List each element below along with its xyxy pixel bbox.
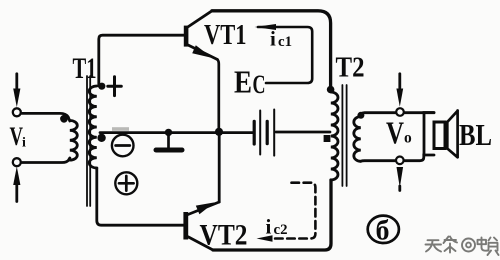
svg-text:E: E [234, 64, 252, 100]
svg-text:T2: T2 [336, 53, 365, 84]
input top arrow [13, 74, 20, 107]
watermark toutiao dianchao [426, 237, 499, 256]
ground [156, 132, 182, 150]
label T1 [73, 52, 97, 85]
transformer T1 core [87, 76, 90, 206]
svg-text:o: o [404, 130, 412, 147]
transformer T1 primary winding [70, 121, 78, 161]
figure label circled b [368, 216, 399, 247]
watermark remnant tick [112, 127, 129, 131]
wire T1 secondary top to VT1 base [99, 35, 184, 86]
svg-text:i: i [266, 215, 272, 239]
input bottom arrow [13, 167, 20, 202]
svg-text:i: i [270, 27, 276, 51]
svg-text:VT1: VT1 [204, 20, 247, 51]
wire T1 secondary bottom to VT2 base [97, 168, 184, 225]
output top terminal [396, 108, 404, 116]
wire junction down to VT2 emitter [218, 132, 221, 202]
circled plus symbol [115, 172, 137, 194]
svg-text:T1: T1 [73, 52, 97, 85]
label ic1 [270, 27, 292, 51]
wire VT1 collector top run to T2 primary top [212, 11, 331, 88]
svg-text:BL: BL [459, 117, 492, 152]
label Vi [10, 122, 27, 151]
wire VT2 collector to T2 primary bottom [213, 180, 331, 250]
label VT2 [200, 219, 248, 252]
node: T1 primary top dot [60, 115, 68, 123]
transistor VT1 [184, 11, 218, 60]
ic1 current loop [255, 24, 313, 83]
transformer T1 secondary winding [89, 86, 97, 168]
wire T2 secondary top to output [361, 113, 434, 117]
svg-text:б: б [376, 216, 390, 247]
wire VT1 emitter down to junction [217, 60, 218, 132]
label EC [234, 64, 266, 100]
svg-text:VT2: VT2 [200, 219, 248, 252]
output bottom arrow [397, 167, 404, 191]
node: emitter junction dot [215, 128, 223, 136]
node: T1 secondary top dot [98, 83, 105, 90]
wire T2 secondary bottom to output [361, 155, 434, 161]
svg-text:c2: c2 [274, 222, 288, 238]
label T2 [336, 53, 365, 84]
plus polarity mark [108, 77, 122, 96]
label BL [459, 117, 492, 152]
input bottom terminal [13, 158, 21, 166]
speaker BL [424, 111, 458, 158]
svg-text:c1: c1 [278, 34, 292, 50]
svg-text:V: V [386, 115, 404, 151]
node: ground junction dot [165, 129, 172, 136]
transformer T2 primary winding [331, 92, 338, 180]
label VT1 [204, 20, 247, 51]
svg-text:C: C [253, 70, 266, 99]
ic2 dashed current loop [257, 183, 316, 242]
transformer T2 core [342, 85, 346, 186]
node: T2 primary top dot [327, 86, 335, 94]
transistor VT2 [183, 202, 219, 250]
output top arrow [396, 74, 403, 107]
wire input bottom to T1 primary [21, 158, 70, 163]
wire input top to T1 primary [21, 113, 70, 121]
node: T2 center tap square dot [324, 135, 331, 142]
output bottom terminal [396, 157, 404, 165]
label Vo [386, 115, 412, 151]
wire center tap to battery junction [100, 131, 253, 134]
input top terminal [13, 108, 21, 116]
node: T1 center tap dot [97, 134, 105, 142]
label ic2 [266, 215, 288, 239]
node: T2 secondary top dot [357, 112, 364, 119]
battery EC [254, 110, 330, 156]
transformer T2 secondary winding [354, 117, 361, 162]
svg-text:i: i [22, 136, 26, 151]
circled minus symbol [112, 135, 134, 157]
